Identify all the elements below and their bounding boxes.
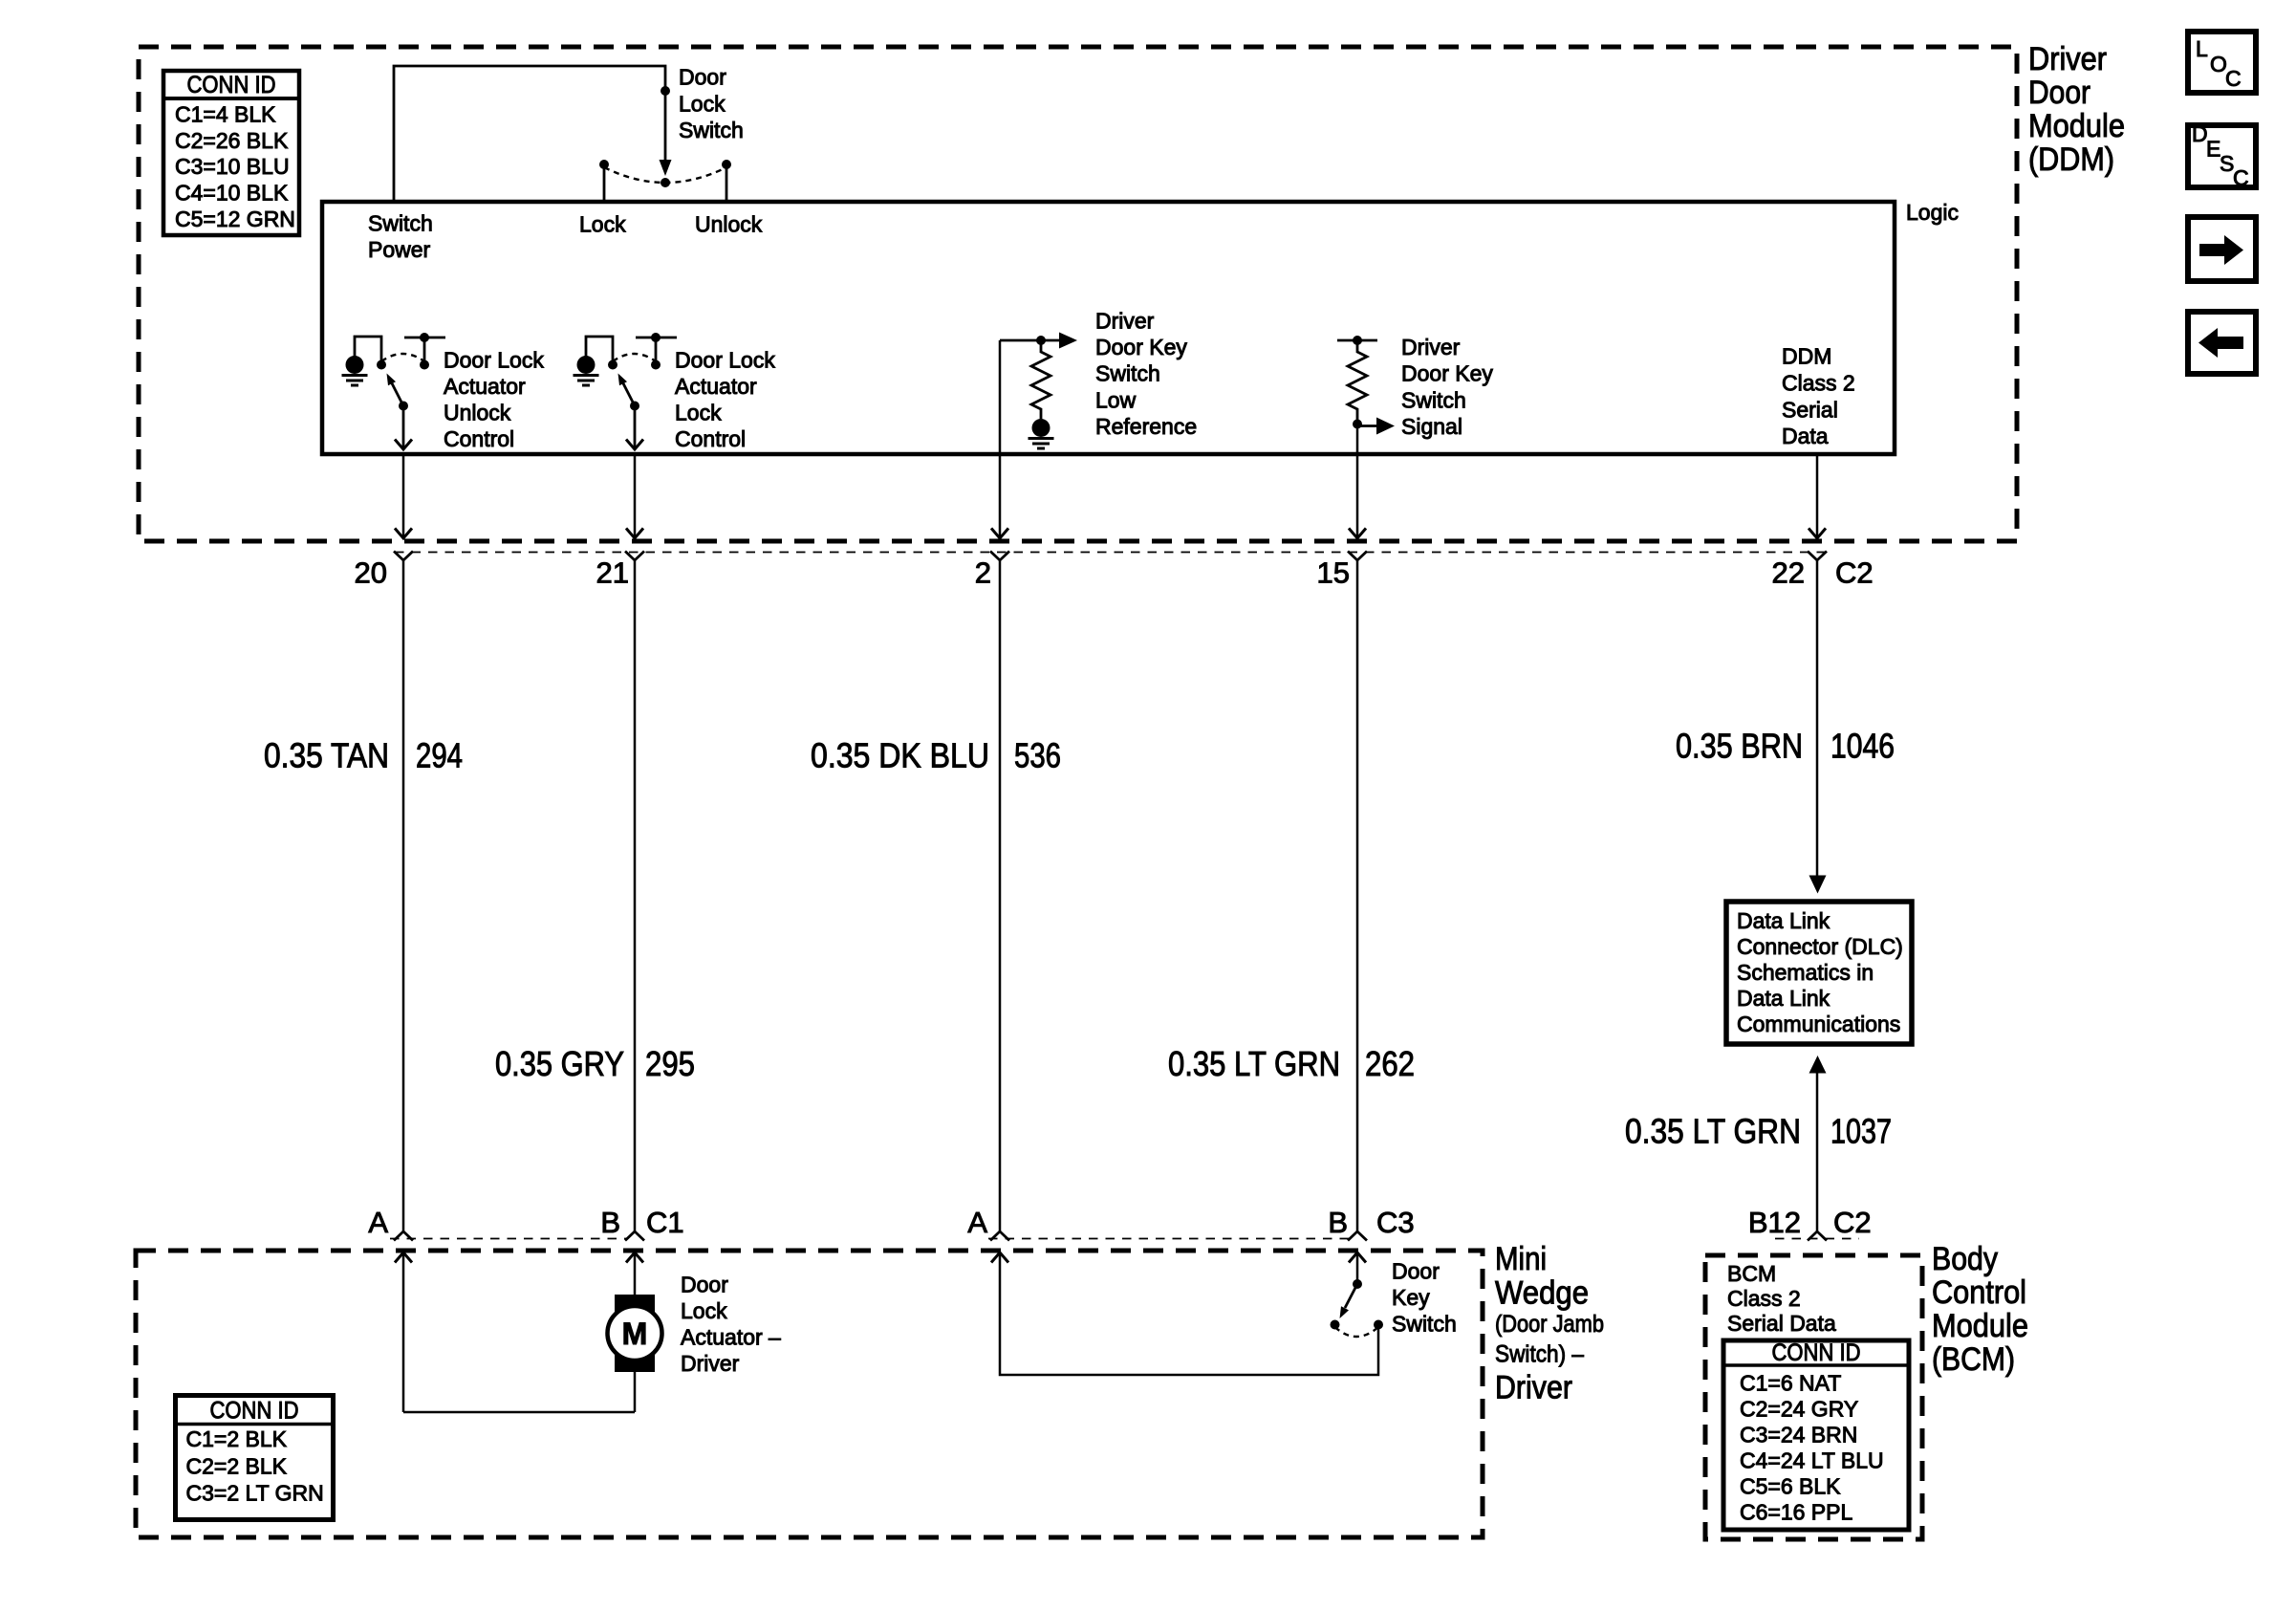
pin 15 connector fork	[1348, 552, 1367, 561]
svg-text:Switch: Switch	[679, 118, 744, 142]
DDM module name label	[2028, 41, 2125, 178]
svg-text:1046: 1046	[1830, 727, 1895, 766]
svg-text:Driver: Driver	[1095, 309, 1155, 334]
wire exits DDM pin 22	[1816, 454, 1819, 536]
resistor R1	[1031, 340, 1051, 419]
svg-text:Data: Data	[1782, 424, 1829, 448]
svg-text:Body: Body	[1932, 1241, 1998, 1277]
data link connector (DLC) box	[1726, 902, 1912, 1044]
wire exits DDM pin 20	[402, 454, 405, 536]
svg-text:Switch) –: Switch) –	[1495, 1341, 1584, 1368]
mini wedge CONN ID table	[176, 1396, 334, 1520]
svg-text:(BCM): (BCM)	[1932, 1341, 2015, 1378]
svg-text:Control: Control	[1932, 1274, 2026, 1311]
node: S4 left contact	[1331, 1320, 1340, 1330]
S4 throw arc	[1335, 1327, 1379, 1337]
bottom connector fork	[394, 1231, 413, 1241]
BCM module name label	[1932, 1241, 2028, 1378]
svg-text:Control: Control	[675, 426, 746, 451]
svg-text:C5=6 BLK: C5=6 BLK	[1740, 1474, 1841, 1499]
svg-text:15: 15	[1317, 556, 1350, 590]
wire: S3 ground hook	[586, 337, 613, 360]
resistor R2	[1348, 340, 1367, 420]
svg-text:Key: Key	[1392, 1285, 1430, 1310]
svg-text:(Door Jamb: (Door Jamb	[1495, 1311, 1604, 1338]
svg-text:Data Link: Data Link	[1737, 986, 1830, 1011]
door lock switch throw arc	[604, 167, 726, 183]
svg-text:Serial Data: Serial Data	[1727, 1311, 1836, 1336]
svg-text:DDM: DDM	[1782, 344, 1831, 369]
wire: terminal A (C3) entry into mini wedge	[991, 1252, 1008, 1263]
svg-text:Data Link: Data Link	[1737, 908, 1830, 933]
door lock actuator driver label	[681, 1273, 781, 1377]
svg-text:Door Lock: Door Lock	[444, 348, 544, 373]
thin dashed connector line C1 (mini wedge)	[390, 1238, 627, 1240]
svg-text:L: L	[2196, 36, 2208, 61]
svg-text:Door Key: Door Key	[1401, 361, 1493, 386]
svg-text:Control: Control	[444, 426, 514, 451]
bottom connector fork	[625, 1231, 644, 1241]
svg-text:Door Lock: Door Lock	[675, 348, 775, 373]
ground: actuator unlock switch	[346, 356, 364, 374]
wire label 0.35 LT GRN 262	[1168, 1044, 1415, 1083]
S2 right contact bar	[404, 337, 445, 339]
wire exits DDM pin 15	[1356, 428, 1359, 536]
node: R2 signal junction	[1353, 420, 1362, 429]
svg-text:C2=26 BLK: C2=26 BLK	[175, 128, 289, 153]
node: S2 pivot	[399, 402, 408, 411]
driver door key switch low reference label	[1095, 309, 1197, 440]
svg-text:0.35 GRY: 0.35 GRY	[495, 1044, 624, 1083]
wire: terminal B entry into mini wedge	[626, 1252, 643, 1263]
BCM CONN ID table	[1723, 1339, 1909, 1530]
node: lock contact	[599, 160, 609, 169]
wire label 0.35 DK BLU 536	[811, 736, 1061, 775]
svg-text:C5=12 GRN: C5=12 GRN	[175, 207, 295, 231]
wire label 0.35 TAN 294	[264, 736, 463, 775]
wire: S2 output to box edge	[402, 406, 405, 448]
svg-text:BCM: BCM	[1727, 1261, 1776, 1286]
wire 1046 (0.35 BRN) to DLC	[1816, 560, 1819, 876]
wire exits DDM pin 21	[634, 454, 637, 536]
node: switch arc center	[661, 178, 670, 187]
svg-text:Driver: Driver	[1401, 335, 1461, 359]
svg-text:Low: Low	[1095, 388, 1137, 413]
wire: switch power feed	[394, 66, 665, 202]
mini wedge module outline (dashed)	[136, 1251, 1483, 1537]
node: S3 left contact	[608, 360, 617, 370]
svg-text:CONN ID: CONN ID	[187, 72, 276, 98]
door key switch S4 arm	[1345, 1284, 1357, 1308]
svg-text:Actuator –: Actuator –	[681, 1325, 781, 1350]
wire 536 (0.35 DK BLU)	[999, 560, 1002, 1231]
svg-text:0.35 TAN: 0.35 TAN	[264, 736, 389, 775]
svg-text:C6=16 PPL: C6=16 PPL	[1740, 1500, 1852, 1525]
svg-text:C1=6 NAT: C1=6 NAT	[1740, 1371, 1841, 1396]
node: unlock contact	[722, 160, 731, 169]
svg-text:Switch: Switch	[368, 211, 433, 236]
svg-text:22: 22	[1772, 556, 1805, 590]
svg-text:536: 536	[1014, 736, 1061, 775]
svg-text:C2: C2	[1835, 556, 1874, 590]
svg-text:C3: C3	[1376, 1206, 1415, 1239]
prev-page arrow icon	[2188, 312, 2256, 374]
svg-text:Actuator: Actuator	[444, 374, 526, 399]
LOC icon button	[2188, 32, 2256, 93]
svg-text:C: C	[2225, 66, 2242, 91]
svg-text:Lock: Lock	[579, 212, 626, 237]
svg-text:Driver: Driver	[2028, 41, 2107, 77]
svg-text:Lock: Lock	[679, 92, 726, 117]
S3 right contact bar	[636, 337, 677, 339]
svg-text:B12: B12	[1748, 1206, 1801, 1239]
pin 2 connector fork	[990, 552, 1009, 561]
svg-text:Unlock: Unlock	[444, 401, 511, 425]
wire 294 (0.35 TAN)	[402, 560, 405, 1231]
svg-text:CONN ID: CONN ID	[210, 1398, 299, 1425]
svg-text:C: C	[2233, 165, 2249, 190]
thin dashed connector line C3 (mini wedge)	[988, 1238, 1350, 1240]
pin 20 connector fork	[394, 552, 413, 561]
logic block	[322, 202, 1895, 454]
ground: R1 low reference	[1032, 419, 1051, 437]
ground: actuator lock switch	[577, 356, 596, 374]
svg-text:Wedge: Wedge	[1495, 1275, 1589, 1312]
svg-text:C4=10 BLK: C4=10 BLK	[175, 181, 289, 206]
svg-text:Lock: Lock	[675, 401, 722, 425]
svg-text:0.35 LT GRN: 0.35 LT GRN	[1625, 1112, 1801, 1151]
node: S3 pivot	[630, 402, 639, 411]
svg-text:0.35 BRN: 0.35 BRN	[1676, 727, 1803, 766]
node: door lock switch common	[661, 86, 670, 96]
mini wedge module name label	[1495, 1241, 1604, 1406]
node: S4 right contact	[1374, 1320, 1383, 1330]
svg-text:Reference: Reference	[1095, 414, 1197, 439]
svg-text:C4=24 LT BLU: C4=24 LT BLU	[1740, 1448, 1884, 1473]
svg-text:C1=4 BLK: C1=4 BLK	[175, 102, 276, 127]
DLC box label	[1737, 908, 1903, 1036]
svg-text:C1: C1	[646, 1206, 684, 1239]
node: R1 top junction	[1036, 336, 1046, 345]
wire 295 (0.35 GRY)	[634, 560, 637, 1231]
door key switch label	[1392, 1259, 1457, 1337]
S2 switch arm	[392, 383, 403, 406]
svg-text:20: 20	[355, 556, 387, 590]
svg-text:C1=2 BLK: C1=2 BLK	[186, 1426, 288, 1451]
svg-text:Power: Power	[368, 237, 431, 262]
wire label 0.35 BRN 1046	[1676, 727, 1895, 766]
svg-text:Mini: Mini	[1495, 1241, 1547, 1277]
wire: terminal B (C3) entry into mini wedge	[1349, 1252, 1366, 1263]
svg-text:Serial: Serial	[1782, 398, 1838, 423]
wire label 0.35 LT GRN 1037	[1625, 1112, 1892, 1151]
svg-text:B: B	[600, 1206, 620, 1239]
svg-text:294: 294	[416, 736, 463, 775]
bottom connector fork	[1808, 1231, 1827, 1241]
wire: terminal A entry into mini wedge	[395, 1252, 412, 1263]
wire: motor return loop	[403, 1411, 635, 1414]
switch power pin label	[368, 211, 433, 263]
svg-text:Switch: Switch	[1392, 1312, 1457, 1337]
thin dashed connector line C2 (BCM)	[1775, 1238, 1859, 1240]
door lock switch label	[679, 65, 744, 143]
svg-text:2: 2	[975, 556, 991, 590]
R1 supply rail and direction arrow	[1000, 339, 1059, 342]
svg-text:Driver: Driver	[681, 1351, 740, 1376]
svg-text:21: 21	[596, 556, 629, 590]
svg-text:1037: 1037	[1830, 1112, 1892, 1151]
svg-text:Communications: Communications	[1737, 1012, 1900, 1036]
wire 262 (0.35 LT GRN)	[1356, 560, 1359, 1231]
svg-text:295: 295	[645, 1044, 695, 1083]
node: S2 left contact	[377, 360, 386, 370]
svg-text:M: M	[622, 1317, 648, 1351]
svg-text:Door Key: Door Key	[1095, 335, 1187, 359]
svg-text:262: 262	[1365, 1044, 1415, 1083]
next-page arrow icon	[2188, 217, 2256, 281]
svg-text:Class 2: Class 2	[1727, 1286, 1801, 1311]
door lock switch S1 arm	[664, 91, 667, 160]
bottom connector fork	[990, 1231, 1009, 1241]
svg-text:(DDM): (DDM)	[2028, 142, 2114, 178]
svg-text:Switch: Switch	[1095, 361, 1160, 386]
svg-text:Schematics in: Schematics in	[1737, 960, 1874, 985]
wire: S2 ground hook	[355, 337, 381, 360]
svg-text:Signal: Signal	[1401, 414, 1462, 439]
bottom connector fork	[1348, 1231, 1367, 1241]
svg-text:C2=2 BLK: C2=2 BLK	[186, 1454, 288, 1479]
DDM module outline (dashed)	[139, 47, 2017, 541]
svg-text:Door: Door	[1392, 1259, 1440, 1284]
R2 supply rail	[1337, 339, 1377, 342]
thin dashed connector line C2 (DDM)	[395, 552, 1827, 554]
wire label 0.35 GRY 295	[495, 1044, 695, 1083]
door lock actuator lock control label	[675, 348, 775, 452]
door lock actuator unlock control label	[444, 348, 544, 452]
R2 signal direction arrow	[1357, 425, 1376, 427]
svg-text:C2=24 GRY: C2=24 GRY	[1740, 1397, 1858, 1422]
node: door key switch pivot	[1353, 1279, 1362, 1289]
svg-text:Actuator: Actuator	[675, 374, 757, 399]
svg-text:C3=2 LT GRN: C3=2 LT GRN	[186, 1481, 324, 1506]
motor M lower lead	[634, 1369, 637, 1412]
svg-text:Switch: Switch	[1401, 388, 1466, 413]
svg-text:Lock: Lock	[681, 1298, 727, 1323]
svg-text:Door: Door	[679, 65, 726, 90]
motor M (door lock actuator)	[608, 1295, 662, 1372]
svg-text:0.35 DK BLU: 0.35 DK BLU	[811, 736, 989, 775]
pin 22 connector fork	[1808, 552, 1827, 561]
svg-text:A: A	[967, 1206, 987, 1239]
DESC icon button	[2188, 121, 2256, 190]
wire: S3 output to box edge	[634, 406, 637, 448]
BCM module outline (dashed)	[1705, 1255, 1922, 1539]
svg-text:Connector (DLC): Connector (DLC)	[1737, 934, 1903, 959]
svg-text:CONN ID: CONN ID	[1772, 1339, 1861, 1366]
svg-text:Module: Module	[1932, 1308, 2028, 1344]
svg-text:C3=10 BLU: C3=10 BLU	[175, 154, 290, 179]
svg-text:B: B	[1328, 1206, 1348, 1239]
DDM class 2 serial data label	[1782, 344, 1855, 449]
S3 throw arc	[613, 354, 656, 361]
svg-text:Door: Door	[2028, 75, 2090, 111]
node: R2 top junction	[1353, 336, 1362, 345]
S3 switch arm	[623, 383, 635, 406]
svg-text:0.35 LT GRN: 0.35 LT GRN	[1168, 1044, 1340, 1083]
svg-text:Logic: Logic	[1906, 200, 1959, 225]
svg-text:C2: C2	[1833, 1206, 1872, 1239]
wire exits DDM pin 2	[999, 340, 1002, 536]
svg-text:Class 2: Class 2	[1782, 371, 1855, 396]
DDM CONN ID table	[163, 71, 299, 235]
svg-text:Unlock: Unlock	[695, 212, 763, 237]
S2 throw arc	[381, 354, 424, 361]
BCM class 2 serial data label	[1727, 1261, 1836, 1336]
svg-text:A: A	[368, 1206, 388, 1239]
svg-text:Door: Door	[681, 1273, 728, 1297]
svg-text:Module: Module	[2028, 108, 2125, 144]
svg-text:C3=24 BRN: C3=24 BRN	[1740, 1423, 1857, 1448]
driver door key switch signal label	[1401, 335, 1493, 439]
wire 1037 (0.35 LT GRN) BCM to DLC	[1809, 1056, 1827, 1074]
pin 21 connector fork	[625, 552, 644, 561]
svg-text:Driver: Driver	[1495, 1370, 1572, 1406]
